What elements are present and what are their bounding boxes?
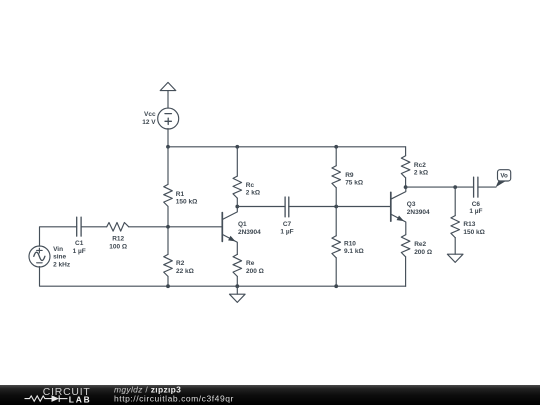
footer bar — [0, 385, 540, 405]
resistor R10 9.1 kOhm — [332, 207, 341, 287]
transistor Q3 2N3904 — [391, 187, 406, 235]
wire Vin top to C1 — [40, 227, 77, 246]
resistor R13 150 kOhm — [451, 187, 460, 254]
svg-text:R1: R1 — [176, 191, 185, 198]
resistor R9 75 kOhm — [332, 147, 341, 207]
wire Q3 collector to C6 — [406, 186, 474, 188]
label Rc 2 kOhm — [246, 182, 260, 197]
svg-text:C1: C1 — [75, 240, 84, 247]
svg-text:150 kΩ: 150 kΩ — [176, 199, 197, 206]
svg-text:Q3: Q3 — [407, 201, 416, 208]
svg-text:R13: R13 — [463, 221, 475, 228]
wire Vcc to top rail — [167, 129, 169, 147]
svg-text:LAB: LAB — [69, 395, 92, 405]
node dot rail/Rc — [235, 145, 239, 149]
svg-text:Vin: Vin — [53, 246, 63, 253]
svg-text:http://circuitlab.com/c3f49qr: http://circuitlab.com/c3f49qr — [114, 393, 234, 403]
svg-text:1 µF: 1 µF — [280, 229, 293, 236]
label C1 1 uF — [73, 240, 86, 255]
svg-text:150 kΩ: 150 kΩ — [463, 229, 484, 236]
svg-text:1 µF: 1 µF — [469, 208, 482, 215]
svg-text:C7: C7 — [283, 221, 292, 228]
voltage source Vin sine 2 kHz — [29, 246, 50, 267]
svg-text:Vcc: Vcc — [144, 111, 156, 118]
label R2 22 kOhm — [176, 260, 194, 275]
node flag Vo — [496, 170, 511, 188]
label R12 100 Ohm — [109, 236, 127, 251]
svg-text:Re2: Re2 — [414, 241, 426, 248]
node dot Q1 collector — [235, 205, 239, 209]
wire Vin bottom to ground rail — [40, 267, 406, 287]
resistor R1 150 kOhm — [164, 147, 173, 227]
wire C6 to output flag — [478, 186, 496, 188]
node dot Re bottom — [235, 284, 239, 288]
wire R12 node to Q1 base — [168, 226, 222, 228]
ground GND1 (flipped, above Vcc) — [160, 82, 176, 108]
svg-text:75 kΩ: 75 kΩ — [345, 180, 363, 187]
svg-text:2N3904: 2N3904 — [238, 229, 261, 236]
node dot R10 bottom — [334, 284, 338, 288]
svg-text:2 kHz: 2 kHz — [53, 261, 71, 268]
svg-text:22 kΩ: 22 kΩ — [176, 268, 194, 275]
capacitor C6 1 uF — [474, 177, 478, 197]
label C7 1 uF — [280, 221, 293, 236]
capacitor C7 1 uF — [285, 197, 289, 217]
svg-text:Re: Re — [246, 260, 255, 267]
wire Re2 bottom corner — [405, 285, 407, 287]
resistor Re2 200 Ohm — [401, 235, 410, 286]
resistor R2 22 kOhm — [164, 227, 173, 286]
label Re2 200 Ohm — [414, 241, 432, 256]
svg-text:200 Ω: 200 Ω — [246, 268, 264, 275]
svg-text:12 V: 12 V — [142, 119, 156, 126]
wire top supply rail — [168, 146, 406, 148]
label Vo — [500, 173, 508, 180]
svg-text:2N3904: 2N3904 — [407, 209, 430, 216]
footer credit text — [114, 384, 234, 403]
logo CircuitLab — [25, 387, 92, 404]
label Q1 2N3904 — [238, 221, 261, 236]
label R1 150 kOhm — [176, 191, 197, 206]
ground GND3 (below R13) — [447, 254, 463, 262]
label C6 1 uF — [469, 201, 482, 215]
label Vcc 12 V — [142, 111, 156, 126]
svg-text:sine: sine — [53, 254, 66, 261]
label Rc2 2 kOhm — [414, 162, 428, 177]
node dot base/R1/R2 — [166, 225, 170, 229]
svg-text:1 µF: 1 µF — [73, 248, 86, 255]
label Vin sine 2 kHz — [53, 246, 71, 269]
node dot R2 bottom — [166, 284, 170, 288]
svg-text:2 kΩ: 2 kΩ — [246, 190, 260, 197]
svg-text:Rc: Rc — [246, 182, 255, 189]
node dot rail/R9 — [334, 145, 338, 149]
transistor Q1 2N3904 — [222, 207, 237, 255]
label Re 200 Ohm — [246, 260, 264, 275]
resistor R12 100 Ohm — [107, 223, 168, 232]
voltage source Vcc 12 V — [158, 108, 179, 129]
resistor Re 200 Ohm — [233, 254, 242, 286]
resistor Rc 2 kOhm — [233, 147, 242, 207]
svg-text:2 kΩ: 2 kΩ — [414, 170, 428, 177]
svg-text:200 Ω: 200 Ω — [414, 249, 432, 256]
node dot Q3 collector — [404, 185, 408, 189]
wire C7 to Q3 base — [289, 206, 390, 208]
ground GND2 (bottom rail) — [230, 286, 246, 302]
wire collector node to C7 — [237, 206, 285, 208]
node dot R13 top — [453, 185, 457, 189]
svg-text:R9: R9 — [345, 172, 354, 179]
svg-text:Rc2: Rc2 — [414, 162, 426, 169]
wire C1 to R12 — [81, 226, 107, 228]
resistor Rc2 2 kOhm — [401, 147, 410, 187]
svg-text:C6: C6 — [472, 201, 481, 208]
label R10 9.1 kOhm — [344, 240, 364, 255]
node dot rail/R1 — [166, 145, 170, 149]
svg-text:R2: R2 — [176, 260, 185, 267]
svg-text:9.1 kΩ: 9.1 kΩ — [344, 248, 364, 255]
node dot R9/R10 — [334, 205, 338, 209]
label R9 75 kOhm — [345, 172, 363, 187]
svg-text:100 Ω: 100 Ω — [109, 243, 127, 250]
label Q3 2N3904 — [407, 201, 430, 216]
svg-text:Vo: Vo — [500, 173, 508, 180]
svg-text:R12: R12 — [112, 236, 124, 243]
svg-text:Q1: Q1 — [238, 221, 247, 228]
svg-text:R10: R10 — [344, 240, 356, 247]
label R13 150 kOhm — [463, 221, 484, 236]
capacitor C1 1 uF — [77, 217, 81, 236]
